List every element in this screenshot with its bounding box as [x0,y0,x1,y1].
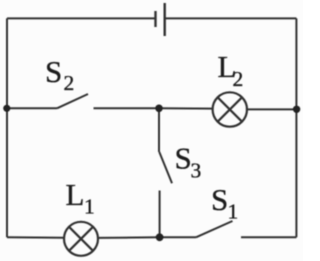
node A junction dot [3,105,10,112]
node D junction dot [156,233,164,241]
lamp L2 bulb circle [213,92,247,126]
lamp L1 bulb circle [64,222,98,256]
switch S3 blade (open) [159,152,172,183]
wire middle branch upper vertical [158,108,160,152]
lamp L1 cross stroke 1 [69,227,93,251]
battery B1 long plate (positive) [163,3,165,36]
wire lamp L2 to node C [246,108,297,110]
node C junction dot [293,106,300,113]
svg-text:1: 1 [84,195,95,219]
battery B1 short plate (negative) [154,11,156,27]
wire row2 middle (S2 to node B) [94,107,160,109]
wire row2 to lamp L2 [159,107,213,109]
wire S1 to bottom-right corner [241,236,296,238]
wire right vertical side [295,18,297,237]
svg-text:2: 2 [64,71,75,95]
svg-text:S: S [175,140,192,175]
wire left vertical side [6,18,8,237]
svg-text:2: 2 [233,67,244,91]
wire node D to S1 pivot [160,236,196,238]
switch S2 blade (open) [57,94,88,108]
svg-text:S: S [211,182,228,217]
svg-text:1: 1 [228,200,239,224]
svg-text:3: 3 [191,159,202,183]
wire middle branch lower vertical [159,191,161,238]
wire bottom-left (to lamp L1) [7,236,64,239]
wire top-left horizontal (to battery) [7,17,156,19]
wire lamp L1 to node D [98,236,160,239]
lamp L2 cross stroke 1 [218,97,242,121]
lamp L2 cross stroke 2 [218,97,242,121]
svg-text:L: L [66,177,85,212]
switch S1 blade (open) [196,221,233,237]
wire row2 left (node A to S2 pivot) [7,107,57,109]
lamp L1 cross stroke 2 [69,227,93,251]
wire top-right horizontal (from battery) [165,17,297,19]
svg-text:S: S [45,54,62,89]
node B junction dot [155,105,163,113]
